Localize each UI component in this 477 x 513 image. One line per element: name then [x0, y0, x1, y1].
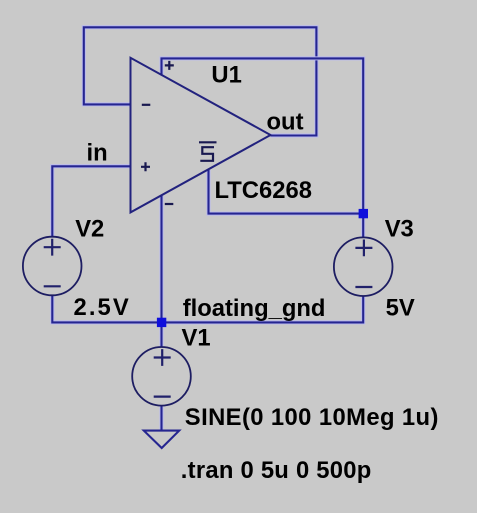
svg-text:U1: U1: [211, 62, 241, 89]
V3 minus mark: [355, 286, 372, 288]
svg-text:in: in: [87, 140, 108, 167]
wire shutdown pin to V+ node: [209, 170, 364, 214]
svg-text:SINE(0 100 10Meg 1u): SINE(0 100 10Meg 1u): [185, 404, 439, 431]
op-amp V- supply minus mark: [165, 203, 174, 205]
node floating_gnd junction: [157, 318, 166, 327]
svg-text:V3: V3: [385, 216, 414, 243]
wire V+ supply rail from op-amp top pin to V3: [162, 58, 364, 237]
svg-text:5V: 5V: [386, 294, 415, 321]
voltage source V1 circle: [132, 347, 191, 406]
op-amp U1 triangle body: [131, 58, 271, 213]
op-amp non-inverting input plus mark: [141, 162, 150, 171]
wire floating_gnd node to V1 top: [160, 322, 164, 347]
svg-text:2.5V: 2.5V: [74, 294, 131, 321]
svg-text:V1: V1: [182, 325, 211, 352]
wire floating_gnd rail V2 to V3: [52, 295, 363, 322]
V1 plus mark: [154, 349, 171, 366]
wire feedback loop from inverting input to output: [84, 27, 317, 135]
V2 minus mark: [44, 285, 61, 287]
node V+ junction: [359, 209, 368, 218]
wire op-amp V- pin down to floating_gnd node: [160, 195, 164, 322]
ground: [144, 431, 179, 448]
voltage source V2 circle: [23, 237, 82, 296]
V3 plus mark: [355, 240, 372, 257]
op-amp V+ supply plus mark: [165, 61, 174, 70]
op-amp shutdown pin 5-bar glyph: [199, 142, 217, 161]
svg-text:floating_gnd: floating_gnd: [183, 295, 326, 322]
wire in net from V2 to non-inverting input: [52, 166, 130, 237]
svg-text:out: out: [267, 108, 304, 135]
V2 plus mark: [44, 239, 61, 256]
svg-text:V2: V2: [75, 216, 104, 243]
svg-text:.tran 0 5u 0 500p: .tran 0 5u 0 500p: [181, 457, 372, 484]
svg-text:LTC6268: LTC6268: [215, 177, 312, 204]
voltage source V3 circle: [334, 237, 393, 296]
wire V1 bottom to ground: [160, 406, 164, 431]
V1 minus mark: [154, 396, 171, 398]
op-amp inverting input minus mark: [142, 104, 151, 106]
